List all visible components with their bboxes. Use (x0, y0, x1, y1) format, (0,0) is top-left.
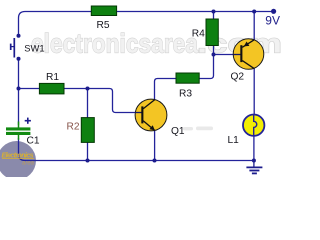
wire R3 to R4 node (199, 55, 213, 79)
junction top rail 9V (252, 10, 256, 14)
svg-text:R4: R4 (192, 28, 205, 39)
junction R1 left node (17, 87, 21, 91)
wire R4 node to Q2 base (214, 54, 234, 56)
svg-text:9V: 9V (265, 14, 280, 28)
wire 9V rail to Q2 emitter (253, 12, 255, 41)
svg-text:R2: R2 (67, 122, 80, 133)
svg-text:SW1: SW1 (24, 42, 44, 53)
ground (246, 161, 262, 174)
junction top rail R4 (212, 10, 216, 14)
wire switch to R1 node (18, 59, 20, 89)
junction R4-R3-Q2 node (212, 53, 216, 57)
svg-text:area: area (22, 161, 35, 167)
junction Q1 emitter bottom (153, 159, 157, 163)
wire R1 right stub (64, 88, 88, 90)
transistor Q2 (233, 39, 264, 70)
logo circle (0, 141, 36, 180)
wire R2 to bottom rail (87, 142, 89, 160)
lamp L1 (243, 115, 264, 137)
wire capacitor to bottom rail (19, 138, 26, 161)
svg-text:Q1: Q1 (171, 126, 185, 137)
svg-text:L1: L1 (228, 135, 240, 146)
wire top rail (117, 11, 274, 13)
resistor R3 (176, 73, 199, 83)
wire left rail upper (19, 12, 92, 36)
resistor R1 (39, 83, 64, 94)
logo text (2, 153, 35, 167)
transistor Q1 (135, 99, 167, 131)
junction SW1 top terminal (17, 34, 21, 38)
wire Q1 base (88, 89, 137, 113)
junction R1-R2-base node (86, 87, 90, 91)
svg-text:electronicsarea: electronicsarea (31, 29, 199, 59)
wire R4 to node (213, 46, 215, 55)
wire bottom rail (25, 160, 254, 162)
wire R1 node to R2 (87, 89, 89, 118)
resistor R4 (206, 19, 218, 46)
svg-text:R5: R5 (97, 20, 110, 31)
svg-text:C1: C1 (27, 136, 40, 147)
svg-text:R1: R1 (46, 72, 59, 83)
wire R1 left stub (19, 88, 40, 90)
wire R1 node down to capacitor (18, 89, 20, 125)
svg-text:R3: R3 (179, 88, 192, 99)
svg-text:Q2: Q2 (231, 72, 245, 83)
terminal 9V (271, 9, 276, 14)
watermark remnant dashes (183, 127, 213, 131)
wire Q2 collector to lamp (253, 68, 255, 114)
wire Q1 collector to R3 (155, 79, 177, 100)
capacitor C1 polarity + (25, 118, 31, 124)
junction R2 bottom (86, 159, 90, 163)
wire lamp to bottom rail (253, 136, 255, 161)
resistor R5 (91, 6, 116, 16)
junction SW1 bottom terminal (17, 57, 21, 61)
wire top rail to R4 (213, 12, 215, 20)
junction ground node (252, 159, 256, 163)
capacitor C1 (6, 122, 30, 140)
resistor R2 (81, 118, 94, 143)
wire Q1 emitter to bottom rail (154, 131, 156, 161)
switch SW1 (11, 38, 15, 58)
